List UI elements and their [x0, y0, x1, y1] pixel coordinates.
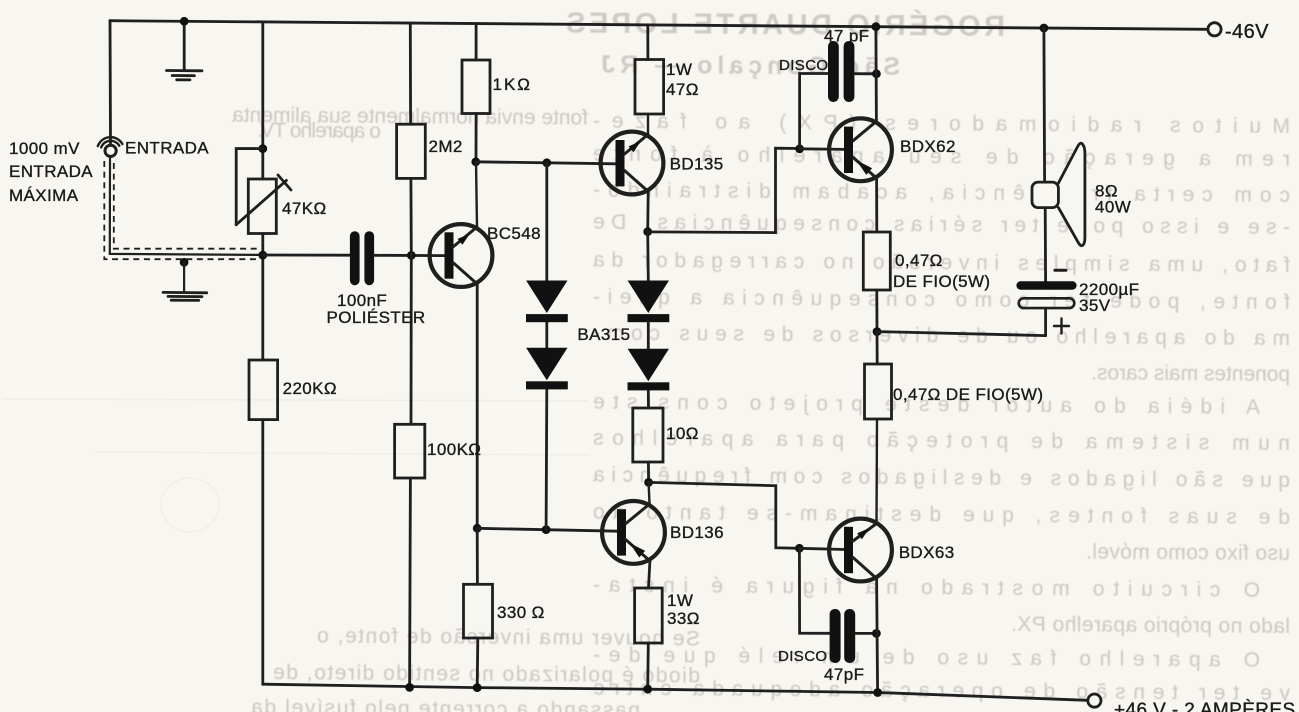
transistor Q2 BD135: [601, 132, 664, 195]
svg-text:POLIÉSTER: POLIÉSTER: [327, 308, 426, 327]
svg-text:220KΩ: 220KΩ: [283, 379, 337, 398]
resistor R 330: [464, 584, 493, 638]
node: BA315 left chain tap: [542, 158, 551, 167]
wire: 10ohm to node: [647, 462, 650, 482]
capacitor C 100nF poliester: [350, 231, 374, 285]
ground G1 top-left: [167, 21, 203, 80]
diode D1 BA315: [526, 281, 568, 323]
wire: 330 leads: [476, 528, 479, 687]
svg-text:10Ω: 10Ω: [666, 424, 699, 443]
svg-text:BD136: BD136: [670, 523, 724, 542]
resistor R 1K: [462, 60, 490, 114]
svg-text:40W: 40W: [1095, 198, 1131, 217]
node: top rail at BDX62: [872, 22, 881, 31]
wire: 47pF right plate to collector line: [854, 72, 876, 75]
resistor R 0,47 no.1: [863, 232, 890, 290]
wire: 0,47 no.1 to mid node: [875, 290, 878, 332]
wire: top supply rail: [110, 21, 1208, 30]
wire: base node to BDX63 bar: [799, 548, 845, 549]
node: BDX62 base node: [795, 144, 804, 153]
wire: 1K to collector node: [475, 114, 478, 162]
svg-text:passando a corrente pelo fusív: passando a corrente pelo fusível da: [250, 696, 640, 712]
svg-text:BDX63: BDX63: [899, 543, 955, 562]
wire: rail down to speaker: [1043, 28, 1046, 182]
svg-text:330 Ω: 330 Ω: [497, 603, 545, 622]
resistor R 2M2: [397, 124, 426, 178]
capacitor C 47pF disco (bottom): [830, 609, 856, 663]
svg-text:1000 mV: 1000 mV: [9, 139, 80, 158]
transistor Q3 BD136: [602, 501, 665, 564]
wire: 100K to bottom rail: [408, 478, 412, 687]
svg-text:47KΩ: 47KΩ: [282, 199, 327, 218]
svg-text:33Ω: 33Ω: [667, 609, 700, 628]
svg-text:+46 V - 2 AMPÈRES: +46 V - 2 AMPÈRES: [1114, 700, 1296, 712]
svg-text:ENTRADA: ENTRADA: [9, 162, 93, 181]
node: bottom rail at 330: [473, 683, 482, 692]
svg-text:DISCO: DISCO: [779, 57, 829, 74]
svg-text:ENTRADA: ENTRADA: [125, 139, 209, 158]
svg-text:São Gonçalo — RJ: São Gonçalo — RJ: [600, 51, 900, 81]
wire: 1K branch from top rail: [475, 24, 478, 60]
faint bleed shapes: [2, 399, 590, 532]
resistor R 1W 33: [635, 588, 663, 643]
wire: left drop from top rail to input terminal: [109, 21, 112, 144]
wire: speaker to 2200uF: [1044, 208, 1047, 282]
wire: 220K down to bottom rail: [261, 420, 264, 685]
svg-text:0,47Ω: 0,47Ω: [895, 251, 943, 270]
wire: top rail down through node to BDX62 collector: [875, 27, 878, 122]
svg-text:-46V: -46V: [1225, 21, 1269, 43]
wire: 47ohm branch from top rail: [646, 25, 649, 60]
wire: base node down to 47pF bottom left plate: [799, 548, 829, 633]
wire: 0,47 no.2 to BDX63 collector: [875, 419, 878, 524]
wire: pot bottom to 220K: [261, 234, 264, 361]
svg-text:1W: 1W: [667, 591, 693, 610]
wire: node to BD135 base: [476, 162, 616, 164]
svg-text:1KΩ: 1KΩ: [493, 75, 533, 94]
wire: BDX62 emitter to 0,47 no.1: [875, 178, 878, 232]
wire: 2M2 to base node and down to 100K: [409, 178, 412, 424]
node: bottom rail at BDX63: [873, 688, 882, 697]
shield (dashed) outer: [104, 161, 260, 259]
capacitor C 47pF disco (top): [828, 41, 854, 102]
node: left chain bottom: [542, 525, 551, 534]
svg-text:ponentes mais caros.: ponentes mais caros.: [1090, 362, 1290, 387]
node: shield ground tap: [180, 258, 189, 267]
diode D2 BA315: [526, 348, 568, 390]
wire: BC548 collector up to node: [476, 162, 477, 227]
resistor R 220K: [249, 360, 278, 420]
wire: input line to 100nF: [263, 254, 350, 257]
wire: base node to BDX62 bar: [800, 147, 845, 150]
node: bottom rail at 33ohm: [643, 685, 652, 694]
resistor R 0,47 no.2: [865, 364, 892, 419]
svg-text:47 pF: 47 pF: [824, 27, 869, 46]
transistor Q4 BDX62: [829, 118, 892, 181]
wire: 47ohm to BD135 collector: [647, 114, 649, 135]
wire: BDX63 drive dog-leg: [649, 482, 800, 548]
svg-text:diodo é polarizado no sentido: diodo é polarizado no sentido direto, de: [272, 661, 700, 687]
node: BD135 emitter / diode chain / BDX62 drive: [643, 227, 652, 236]
wire: 2200uF to output node line: [1044, 308, 1047, 336]
potentiometer R 47K: [236, 149, 291, 234]
svg-text:o aparelho TV.: o aparelho TV.: [256, 119, 381, 143]
svg-text:0,47Ω DE FIO(5W): 0,47Ω DE FIO(5W): [893, 385, 1043, 404]
node: BDX63 base node: [795, 544, 804, 553]
wire: shielded core from input to pot bottom: [110, 158, 263, 255]
node: pot top / wiper tie: [258, 144, 267, 153]
svg-text:100KΩ: 100KΩ: [427, 440, 481, 459]
svg-text:BA315: BA315: [577, 325, 630, 344]
node: 47pF / collector junction: [872, 69, 881, 78]
resistor R 100K: [395, 424, 425, 478]
node: BC548 collector / BD135 base: [471, 157, 480, 166]
resistor R 1W 47: [635, 60, 664, 115]
diode D3 BA315: [628, 281, 670, 323]
svg-text:2M2: 2M2: [429, 137, 463, 156]
wire: BD136 base line: [477, 528, 618, 531]
wire: pot branch from top rail: [261, 22, 264, 179]
wire: BDX63 emitter down to bottom rail: [877, 579, 878, 693]
wire: bottom supply rail: [263, 684, 1088, 700]
speaker LS 8ohm 40W: [1032, 143, 1085, 245]
shield (dashed) inner: [114, 163, 257, 249]
svg-text:BC548: BC548: [487, 224, 541, 243]
wire: 2M2 branch from top rail: [409, 23, 412, 124]
wire: 100nF to BC548 base: [374, 254, 444, 257]
wire: right diode chain verticals: [646, 232, 650, 408]
wire: output node to 2200uF bottom: [877, 332, 1046, 336]
svg-text:47pF: 47pF: [824, 665, 864, 684]
wire: 47pF bottom right plate to emitter line: [855, 632, 876, 635]
svg-text:MÁXIMA: MÁXIMA: [9, 186, 79, 205]
node: ground tap on top rail: [180, 17, 189, 26]
node: 47pF / emitter junction: [872, 629, 881, 638]
svg-text:Se houver uma inversão de font: Se houver uma inversão de fonte, o: [316, 624, 700, 650]
node: emitter/330 junction: [473, 524, 482, 533]
svg-text:47Ω: 47Ω: [666, 80, 699, 99]
resistor R 10: [633, 408, 663, 462]
wire: base node up to 47pF left plate: [800, 74, 828, 149]
node: top rail speaker tap: [1040, 24, 1049, 33]
node: 2M2 junction on base line: [407, 251, 416, 260]
svg-text:DE FIO(5W): DE FIO(5W): [893, 272, 991, 291]
wire: node to 0,47 no.2: [876, 332, 879, 364]
wire: between D3 and D4: [647, 322, 650, 349]
svg-text:35V: 35V: [1079, 296, 1111, 315]
svg-text:BD135: BD135: [670, 155, 724, 174]
svg-text:DISCO: DISCO: [778, 648, 828, 665]
input terminal ENTRADA: [98, 137, 123, 156]
wire: node down to BD136 collector: [647, 482, 650, 504]
svg-text:lado no próprio aparelho PX.: lado no próprio aparelho PX.: [1010, 613, 1290, 638]
ground G2 on cable shield: [163, 262, 207, 300]
transistor Q1 BC548: [430, 224, 493, 287]
capacitor C 2200uF 35V: [1016, 270, 1076, 333]
node: pot bottom / input line: [258, 251, 267, 260]
wire: left diode chain verticals: [545, 163, 549, 530]
node: bottom rail at 100K: [405, 683, 414, 692]
svg-text:uso fixo como móvel.: uso fixo como móvel.: [1085, 540, 1290, 565]
wire: BD136 emitter to 33ohm: [649, 561, 650, 588]
terminal +46V: [1088, 694, 1101, 707]
wire: BD135 emitter node to BDX62 base (dog-leg): [648, 148, 800, 232]
wire: 33ohm to bottom rail: [646, 643, 649, 689]
terminal -46V: [1208, 23, 1221, 36]
svg-text:BDX62: BDX62: [900, 137, 956, 156]
diode D4 BA315: [628, 349, 670, 391]
node: output node between 0,47 resistors: [873, 327, 882, 336]
wire: BC548 emitter down to 330 node: [476, 284, 479, 528]
svg-text:1W: 1W: [666, 60, 692, 79]
transistor Q5 BDX63: [829, 519, 892, 582]
wire: BD135 emitter down to node: [646, 192, 649, 232]
node: BD136 collector / BDX63 drive: [644, 478, 653, 487]
